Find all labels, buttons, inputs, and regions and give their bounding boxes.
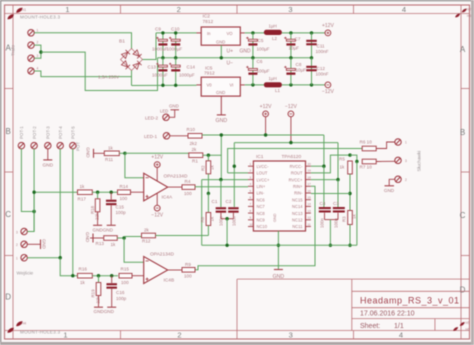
svg-text:B1: B1 bbox=[119, 39, 125, 45]
wire +12 to pin3 dot bbox=[220, 135, 222, 180]
svg-text:−12V: −12V bbox=[285, 104, 297, 110]
svg-text:1000µF: 1000µF bbox=[152, 46, 168, 51]
svg-text:LIN-: LIN- bbox=[257, 191, 265, 196]
wire R4 to pin4 bbox=[195, 186, 248, 188]
svg-text:2: 2 bbox=[405, 178, 407, 182]
svg-text:ROUT: ROUT bbox=[291, 171, 303, 176]
wire trafo2 stub bbox=[34, 45, 41, 52]
pot pad POT-2 bbox=[31, 142, 37, 148]
resistor R1 bbox=[189, 153, 203, 158]
svg-text:D: D bbox=[460, 286, 466, 295]
svg-text:RVCC-: RVCC- bbox=[290, 164, 304, 169]
svg-text:18: 18 bbox=[308, 175, 312, 179]
svg-text:14: 14 bbox=[308, 202, 312, 206]
trafo pad 1 bbox=[28, 30, 34, 36]
svg-text:GND: GND bbox=[240, 48, 252, 54]
wire pin17 route bbox=[195, 186, 315, 269]
svg-text:7812: 7812 bbox=[203, 19, 214, 25]
svg-text:100: 100 bbox=[184, 274, 192, 279]
svg-text:IC1: IC1 bbox=[256, 154, 264, 160]
svg-text:R1: R1 bbox=[192, 158, 198, 163]
svg-text:GND: GND bbox=[169, 103, 179, 108]
svg-text:−12V: −12V bbox=[322, 89, 334, 95]
svg-text:NC11: NC11 bbox=[292, 224, 303, 229]
svg-text:17: 17 bbox=[308, 182, 312, 186]
IC5 gnd stem bbox=[220, 96, 222, 114]
svg-text:NC14: NC14 bbox=[292, 204, 303, 209]
wire R12 out bbox=[156, 235, 209, 237]
svg-text:2k: 2k bbox=[192, 147, 198, 152]
wire R11 out bbox=[119, 152, 125, 154]
svg-text:R8: R8 bbox=[200, 216, 205, 222]
svg-text:100nF: 100nF bbox=[316, 49, 329, 54]
svg-text:1000µF: 1000µF bbox=[152, 73, 168, 78]
svg-text:2: 2 bbox=[177, 5, 181, 14]
svg-text:1k: 1k bbox=[80, 184, 86, 189]
mount hole H5 bbox=[453, 322, 465, 332]
resistor R17 bbox=[34, 191, 77, 193]
svg-text:10µF: 10µF bbox=[296, 68, 307, 73]
wire R7 tap bbox=[350, 155, 357, 161]
frame row letters bbox=[5, 44, 466, 302]
wire trafo1 to bridge top bbox=[34, 33, 131, 49]
svg-text:R7 10: R7 10 bbox=[360, 165, 373, 170]
supply -12V opamp A bbox=[154, 205, 160, 211]
wire pin2 bbox=[228, 172, 248, 174]
wire R2 bottom bbox=[207, 174, 209, 194]
svg-text:+12V: +12V bbox=[322, 23, 334, 29]
svg-text:1k: 1k bbox=[210, 216, 215, 221]
wire plus rail bbox=[156, 32, 197, 34]
svg-text:V0: V0 bbox=[207, 83, 213, 88]
gnd rot R11 bbox=[93, 149, 95, 158]
svg-text:MOUNT-HOLE3.3: MOUNT-HOLE3.3 bbox=[20, 15, 60, 20]
capacitor C7 bbox=[290, 33, 292, 58]
supply +12V mid bbox=[263, 111, 269, 117]
svg-text:Słuchawki: Słuchawki bbox=[417, 151, 422, 172]
svg-text:R12: R12 bbox=[142, 239, 151, 244]
capacitor C10 bbox=[175, 33, 177, 58]
svg-text:C11: C11 bbox=[317, 44, 326, 49]
wire R13 out bbox=[117, 237, 124, 239]
wire R6 to pad bbox=[376, 142, 395, 149]
resistor R15 bbox=[119, 273, 132, 278]
svg-text:LOUT: LOUT bbox=[257, 171, 268, 176]
svg-text:3: 3 bbox=[289, 331, 293, 340]
capacitor C3 bbox=[337, 180, 339, 207]
svg-text:C15: C15 bbox=[116, 205, 125, 210]
capacitor C12 bbox=[311, 58, 313, 85]
wire trafo3 stub bbox=[34, 52, 41, 58]
wire -12 stem bbox=[290, 117, 292, 143]
svg-text:1µH: 1µH bbox=[269, 76, 277, 81]
svg-text:−12V: −12V bbox=[151, 212, 163, 218]
resistor R13 bbox=[104, 236, 118, 241]
svg-text:1: 1 bbox=[37, 28, 39, 32]
gnd R19 bbox=[94, 306, 103, 308]
svg-text:GND: GND bbox=[216, 40, 225, 45]
pot pad POT-1 bbox=[18, 142, 24, 148]
resistor R16 bbox=[78, 273, 93, 278]
wire R17 out bbox=[92, 191, 118, 193]
svg-text:1k: 1k bbox=[111, 242, 117, 247]
svg-text:IC2: IC2 bbox=[203, 14, 211, 20]
svg-text:R13: R13 bbox=[96, 241, 105, 246]
capacitor C9 bbox=[162, 33, 164, 58]
svg-text:C2: C2 bbox=[226, 199, 232, 204]
svg-text:100n: 100n bbox=[319, 218, 324, 228]
inductor L1 bbox=[264, 82, 282, 87]
svg-text:10µF: 10µF bbox=[289, 46, 300, 51]
svg-text:4: 4 bbox=[37, 67, 39, 71]
wire C1C2 join bbox=[221, 218, 234, 220]
svg-text:GND: GND bbox=[85, 147, 90, 158]
wire gnd rail bottom bbox=[202, 244, 357, 246]
capacitor C2 bbox=[233, 166, 235, 207]
wire R7 vert bbox=[356, 162, 358, 246]
wire trafo4 to bridge bottom bbox=[34, 71, 131, 77]
svg-text:POT-2: POT-2 bbox=[32, 126, 37, 139]
wire L1 to -12V bbox=[282, 84, 325, 86]
svg-text:LVCC-: LVCC- bbox=[257, 164, 270, 169]
mount hole H4 bbox=[7, 320, 22, 333]
svg-text:C: C bbox=[460, 211, 466, 220]
wire R3 bottom bbox=[349, 225, 351, 246]
svg-text:+12V: +12V bbox=[151, 155, 163, 161]
svg-text:LVCC+: LVCC+ bbox=[257, 177, 271, 182]
svg-text:11: 11 bbox=[308, 222, 311, 226]
pot pad POT-4 bbox=[57, 142, 63, 148]
capacitor C5 bbox=[252, 33, 254, 58]
wire CT run bbox=[41, 52, 158, 90]
svg-text:2: 2 bbox=[37, 41, 39, 45]
trafo pad 2 bbox=[28, 42, 34, 48]
svg-text:R3: R3 bbox=[342, 216, 347, 222]
svg-text:100µF: 100µF bbox=[257, 47, 270, 52]
svg-text:R6 10: R6 10 bbox=[360, 140, 373, 145]
LED-2 gnd wire bbox=[169, 110, 175, 117]
wire R13 to R12 bbox=[124, 236, 141, 238]
op-amp IC1 TPA6120 box bbox=[253, 161, 305, 231]
supply +12V opamp A bbox=[154, 162, 160, 168]
wire minus rail bbox=[132, 84, 197, 86]
resistor R12 bbox=[142, 233, 156, 238]
wire +12 rail mid bbox=[202, 134, 324, 136]
LED-1 wire bbox=[170, 135, 188, 137]
capacitor C11 bbox=[311, 33, 313, 58]
resistor R4 bbox=[182, 185, 195, 190]
wire pad1 down bbox=[60, 258, 77, 276]
wire L2 to +12V bbox=[282, 32, 325, 34]
svg-text:+12V: +12V bbox=[260, 104, 272, 110]
svg-text:LED: LED bbox=[160, 109, 168, 114]
wire C3C4 join bbox=[325, 219, 339, 221]
pot pad POT-5 bbox=[70, 142, 76, 148]
wire -12 drop to pin1 bbox=[233, 143, 235, 167]
resistor R19 vert bbox=[98, 276, 100, 283]
svg-text:GND: GND bbox=[42, 239, 47, 249]
svg-text:1/1: 1/1 bbox=[394, 323, 404, 330]
trafo pad 3 bbox=[28, 55, 34, 61]
svg-text:100: 100 bbox=[184, 191, 192, 196]
LED-1 pad bbox=[163, 133, 169, 139]
svg-text:100p: 100p bbox=[116, 296, 127, 301]
svg-text:R2: R2 bbox=[201, 165, 206, 171]
svg-text:1k: 1k bbox=[352, 214, 357, 219]
supply -12V top bbox=[325, 82, 331, 88]
svg-text:2k: 2k bbox=[144, 228, 150, 233]
svg-text:MOUNT-HOLE3.3: MOUNT-HOLE3.3 bbox=[20, 330, 60, 335]
wire opamp B out bbox=[168, 269, 182, 271]
gnd rot R13 bbox=[92, 234, 94, 243]
op-amp IC4A bbox=[144, 173, 168, 201]
wire +12 drop to pin20 bbox=[323, 135, 325, 166]
svg-text:R19: R19 bbox=[91, 289, 96, 298]
svg-text:4: 4 bbox=[402, 5, 406, 14]
svg-text:100n: 100n bbox=[219, 216, 224, 226]
svg-text:C9: C9 bbox=[155, 27, 161, 32]
wire to minus input B bbox=[124, 238, 144, 262]
svg-text:22k: 22k bbox=[96, 296, 101, 304]
svg-text:1k: 1k bbox=[80, 280, 86, 285]
gnd C15 bbox=[107, 224, 116, 226]
svg-text:3: 3 bbox=[16, 230, 18, 234]
svg-text:Trafo: Trafo bbox=[11, 45, 17, 56]
wire -12 drop to pin18 bbox=[337, 143, 339, 180]
gnd IC1 bbox=[274, 269, 283, 271]
wire pot1 down bbox=[21, 149, 34, 212]
resistor R3 vert bbox=[348, 211, 353, 225]
wire pin3 left bbox=[202, 179, 248, 181]
svg-text:GND: GND bbox=[85, 232, 90, 243]
wire bridge minus bbox=[131, 71, 133, 86]
frame column numbers bbox=[63, 5, 406, 340]
trafo pad 4 bbox=[28, 68, 34, 74]
wire pin19 to R5 bbox=[311, 155, 350, 173]
svg-text:RIN-: RIN- bbox=[294, 191, 303, 196]
capacitor C6 bbox=[252, 58, 254, 85]
svg-text:LED-2: LED-2 bbox=[145, 115, 158, 120]
svg-text:LED-1: LED-1 bbox=[144, 134, 157, 139]
svg-text:POT-3: POT-3 bbox=[46, 126, 51, 139]
svg-text:C14: C14 bbox=[187, 65, 196, 70]
wire to minus input A bbox=[125, 153, 144, 177]
svg-text:1000µF: 1000µF bbox=[167, 46, 183, 51]
wire gnd left drop bbox=[201, 180, 203, 246]
svg-text:GND: GND bbox=[42, 163, 53, 169]
svg-text:D: D bbox=[5, 293, 11, 302]
gnd R18 bbox=[93, 224, 102, 226]
capacitor C4 bbox=[323, 166, 325, 207]
svg-text:1µH: 1µH bbox=[269, 23, 277, 28]
headphone pad 2 bbox=[395, 176, 401, 182]
svg-text:H2: H2 bbox=[467, 8, 471, 12]
svg-text:IC4A: IC4A bbox=[162, 195, 173, 201]
svg-text:16: 16 bbox=[308, 189, 312, 193]
svg-text:GND: GND bbox=[216, 118, 228, 124]
svg-text:1,5A 250V: 1,5A 250V bbox=[98, 74, 120, 79]
wire pad1 right bbox=[27, 257, 60, 259]
svg-text:15: 15 bbox=[308, 196, 312, 200]
headphone pad 1 bbox=[395, 139, 401, 145]
resistor R2 vert bbox=[207, 155, 209, 161]
wejscie pad 2 bbox=[21, 241, 27, 247]
svg-text:10: 10 bbox=[250, 222, 254, 226]
svg-text:GND: GND bbox=[384, 188, 395, 193]
wire R6 line bbox=[228, 149, 363, 173]
svg-text:NC13: NC13 bbox=[292, 211, 303, 216]
pot pad POT-3 bbox=[45, 142, 51, 148]
svg-text:R10: R10 bbox=[187, 127, 196, 132]
svg-text:1: 1 bbox=[16, 257, 18, 261]
svg-text:H4: H4 bbox=[22, 322, 27, 326]
IC5 pins bbox=[197, 84, 245, 86]
wire pin16 bbox=[311, 193, 350, 195]
svg-text:C3: C3 bbox=[333, 201, 339, 206]
svg-text:19: 19 bbox=[308, 169, 312, 173]
capacitor C14 bbox=[175, 58, 177, 86]
svg-text:H6: H6 bbox=[466, 328, 470, 332]
svg-text:3: 3 bbox=[37, 54, 39, 58]
svg-text:L2: L2 bbox=[272, 36, 277, 41]
op-amp IC4B bbox=[144, 257, 168, 284]
wire opamp A out bbox=[168, 186, 182, 188]
IC2 7812 box bbox=[201, 27, 240, 45]
svg-text:RIN+: RIN+ bbox=[293, 184, 303, 189]
svg-text:22k: 22k bbox=[95, 212, 100, 220]
svg-text:1k: 1k bbox=[340, 165, 346, 170]
IC2 pins bbox=[197, 32, 245, 34]
svg-text:2: 2 bbox=[177, 331, 181, 340]
mount hole H1 bbox=[7, 7, 22, 20]
svg-text:C12: C12 bbox=[317, 66, 326, 71]
supply +12V top bbox=[325, 30, 331, 36]
IC5 7912 box bbox=[201, 77, 240, 96]
svg-text:NC7: NC7 bbox=[257, 204, 266, 209]
svg-text:C16: C16 bbox=[116, 290, 125, 295]
wire -12 rail mid bbox=[234, 142, 338, 144]
junction trafo CT bbox=[39, 50, 42, 53]
svg-text:3: 3 bbox=[288, 5, 292, 14]
svg-text:C8: C8 bbox=[296, 62, 302, 67]
svg-text:H1: H1 bbox=[22, 8, 27, 12]
svg-text:U+: U+ bbox=[227, 48, 234, 54]
svg-text:R15: R15 bbox=[121, 266, 130, 271]
svg-text:H3: H3 bbox=[467, 14, 471, 18]
svg-text:R9: R9 bbox=[185, 262, 191, 267]
svg-text:R17: R17 bbox=[78, 197, 87, 202]
svg-text:Sheet:: Sheet: bbox=[360, 323, 380, 330]
wire R1 out bbox=[203, 154, 222, 156]
svg-text:NC15: NC15 bbox=[292, 197, 303, 202]
svg-text:20: 20 bbox=[308, 162, 312, 166]
svg-text:VI: VI bbox=[230, 83, 234, 88]
svg-text:13: 13 bbox=[308, 209, 312, 213]
junction R11 bbox=[123, 152, 126, 155]
svg-text:NC8: NC8 bbox=[257, 211, 266, 216]
svg-text:100nF: 100nF bbox=[316, 72, 329, 77]
svg-text:3: 3 bbox=[405, 159, 407, 163]
IC2 gnd stem bbox=[220, 45, 222, 58]
svg-text:C10: C10 bbox=[171, 27, 180, 32]
wire pad2 gnd bbox=[389, 179, 395, 185]
svg-text:NC10: NC10 bbox=[257, 224, 268, 229]
wejscie pad 1 bbox=[21, 255, 27, 261]
svg-text:LIN+: LIN+ bbox=[257, 184, 266, 189]
svg-text:B: B bbox=[460, 128, 465, 137]
svg-text:C6: C6 bbox=[257, 59, 263, 64]
wire mid rail bbox=[158, 57, 312, 59]
wire pin20 bbox=[311, 165, 324, 167]
inductor L2 bbox=[264, 30, 282, 35]
IC1 gnd stem bbox=[277, 231, 279, 269]
wire pin18 bbox=[311, 179, 338, 181]
svg-text:VO: VO bbox=[227, 31, 234, 36]
svg-text:C7: C7 bbox=[295, 37, 301, 42]
svg-text:POT-4: POT-4 bbox=[58, 126, 63, 139]
wire R7 to pad bbox=[376, 160, 395, 162]
svg-text:17.06.2016 22:10: 17.06.2016 22:10 bbox=[360, 311, 415, 318]
svg-text:B: B bbox=[6, 127, 11, 136]
supply -12V mid bbox=[288, 111, 294, 117]
svg-text:R4: R4 bbox=[185, 179, 191, 184]
svg-text:POT-5: POT-5 bbox=[71, 126, 76, 139]
svg-text:NC6: NC6 bbox=[257, 197, 266, 202]
wire R16 out bbox=[92, 275, 118, 277]
svg-text:100: 100 bbox=[120, 196, 128, 201]
svg-text:NC12: NC12 bbox=[292, 218, 303, 223]
svg-text:1: 1 bbox=[63, 331, 67, 340]
svg-text:2: 2 bbox=[16, 243, 18, 247]
svg-text:R5: R5 bbox=[339, 157, 345, 162]
svg-text:R14: R14 bbox=[120, 184, 129, 189]
svg-text:C13: C13 bbox=[148, 65, 157, 70]
svg-text:7912: 7912 bbox=[204, 71, 215, 77]
svg-text:Headamp_RS_3_v_01: Headamp_RS_3_v_01 bbox=[360, 295, 460, 305]
resistor R18 vert bbox=[97, 192, 99, 198]
resistor R14 bbox=[118, 190, 131, 195]
wire pot4 down bbox=[59, 149, 61, 258]
wire pad3 up bbox=[27, 192, 34, 231]
svg-text:POT: POT bbox=[76, 142, 81, 151]
svg-text:100µF: 100µF bbox=[257, 69, 270, 74]
bridge B1 diodes bbox=[121, 50, 130, 59]
svg-text:1: 1 bbox=[65, 5, 69, 14]
svg-text:IC4B: IC4B bbox=[164, 278, 175, 284]
svg-text:R11: R11 bbox=[105, 157, 114, 162]
mount hole H2 H3 bbox=[455, 8, 467, 18]
wire reg out -12 bbox=[245, 84, 264, 86]
svg-text:R18: R18 bbox=[90, 205, 95, 214]
junction pot5 bbox=[71, 274, 74, 277]
svg-text:Wejście: Wejście bbox=[17, 271, 34, 277]
svg-text:NC9: NC9 bbox=[257, 218, 266, 223]
gnd C16 bbox=[107, 306, 116, 308]
svg-text:GND: GND bbox=[273, 274, 285, 280]
wire R11 to R1 bbox=[125, 152, 189, 154]
capacitor C16 bbox=[111, 276, 113, 283]
IC1 pins bbox=[248, 166, 311, 226]
svg-text:1000µF: 1000µF bbox=[179, 73, 195, 78]
svg-text:POT-1: POT-1 bbox=[19, 126, 24, 139]
resistor R11 bbox=[104, 151, 119, 156]
svg-text:H5: H5 bbox=[466, 321, 470, 325]
capacitor C13 bbox=[162, 58, 164, 86]
svg-text:1k: 1k bbox=[210, 165, 215, 170]
svg-text:U−: U− bbox=[227, 61, 234, 67]
resistor R10 bbox=[188, 134, 202, 139]
wire reg out +12 bbox=[245, 32, 264, 34]
